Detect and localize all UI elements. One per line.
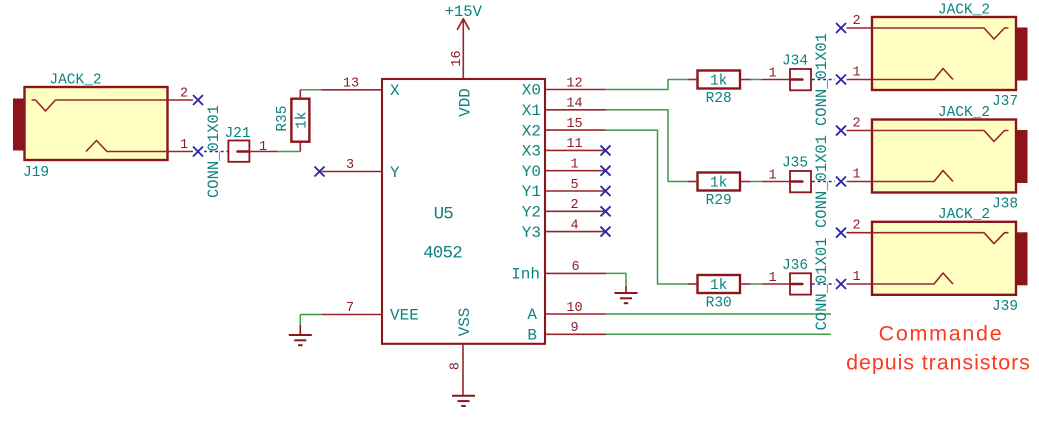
pin name Y [390, 164, 400, 182]
svg-text:B: B [527, 326, 537, 344]
pin 8 (VSS) of U5 [462, 344, 464, 396]
svg-text:Y0: Y0 [522, 163, 541, 181]
svg-text:Commande: Commande [879, 322, 1004, 346]
svg-text:+15V: +15V [445, 3, 483, 21]
pin 1 of J19 (wire stub) [168, 151, 194, 153]
pin 1 of J39 [847, 283, 872, 285]
pin 10 (A) of U5 [545, 313, 606, 315]
pin 16 (VDD) of U5 [462, 38, 464, 79]
svg-text:7: 7 [346, 301, 354, 316]
no-connect X on J38 pin 1 [836, 177, 846, 187]
pin 2 of J19 (wire stub) [168, 99, 194, 101]
reference R30 [706, 295, 732, 311]
connector J39 (JACK_2 stereo jack) [872, 222, 1028, 295]
svg-text:3: 3 [346, 158, 354, 173]
svg-text:5: 5 [570, 178, 578, 193]
svg-text:2: 2 [852, 14, 860, 29]
svg-text:J34: J34 [782, 54, 808, 70]
pin number 1 of J39 [852, 270, 860, 285]
wire VEE to ground (green) [300, 315, 321, 326]
svg-text:A: A [527, 306, 537, 324]
reference J19 [23, 165, 49, 181]
pin 2 (Y2) of U5 [545, 210, 606, 212]
pin name X3 [522, 143, 541, 161]
reference R35 [275, 106, 291, 132]
pin name VSS [456, 308, 474, 337]
pin 9 (B) of U5 [545, 333, 606, 335]
pin number 11 [566, 137, 582, 152]
svg-text:J39: J39 [992, 299, 1018, 315]
pin number 2 of J38 [852, 117, 860, 132]
pin name Y3 [522, 224, 541, 242]
ground symbol at VSS [452, 396, 475, 406]
svg-text:R28: R28 [706, 91, 732, 107]
svg-text:2: 2 [180, 87, 188, 102]
reference J36 [782, 258, 808, 274]
value 1k of R30 [710, 278, 727, 294]
no-connect X on pin 4 [601, 227, 611, 237]
pin 2 of J37 [847, 27, 872, 29]
annotation text line 1 (Commande) [879, 322, 1004, 346]
pin 12 (X0) of U5 [545, 89, 606, 91]
power symbol +15V [457, 19, 469, 41]
wire X1 to R29 (green) [606, 110, 690, 182]
wire net A (green) [606, 313, 831, 315]
value 1k of R28 [710, 74, 727, 90]
svg-text:13: 13 [343, 77, 359, 92]
op-amp U5 body (4052 multiplexer) [382, 79, 545, 344]
svg-text:2: 2 [570, 198, 578, 213]
pin number 1 of J21 [259, 140, 267, 155]
pin number 1 of J38 [852, 168, 860, 183]
pin number 1 of J36 [768, 271, 776, 286]
wire Inh to ground (green) [606, 273, 626, 286]
wire X2 to R30 (green) [606, 130, 690, 284]
net label +15V [445, 3, 483, 21]
svg-text:1: 1 [768, 271, 776, 286]
ground symbol at Inh [615, 286, 638, 303]
pin 1 of J38 [847, 181, 872, 183]
svg-text:J35: J35 [782, 156, 808, 172]
svg-text:R29: R29 [706, 193, 732, 209]
svg-text:1: 1 [852, 168, 860, 183]
reference R28 [706, 91, 732, 107]
label JACK_2 for J39 [938, 207, 990, 223]
label CONN_01X01 for J34 [813, 33, 831, 126]
svg-text:1k: 1k [710, 176, 727, 192]
svg-text:Y2: Y2 [522, 204, 541, 222]
svg-text:JACK_2: JACK_2 [938, 207, 990, 223]
pin name Inh [511, 265, 540, 283]
no-connect X on pin 2 [601, 206, 611, 216]
svg-text:J21: J21 [224, 126, 250, 142]
pin number 5 [570, 178, 578, 193]
svg-text:X0: X0 [522, 82, 541, 100]
svg-text:R35: R35 [275, 106, 291, 132]
svg-text:1k: 1k [710, 74, 727, 90]
dashed no-connect link J35 [812, 181, 835, 183]
no-connect X on pin 3 [315, 167, 325, 177]
pin 1 of J34 [762, 79, 790, 81]
svg-text:1: 1 [852, 66, 860, 81]
svg-text:9: 9 [570, 321, 578, 336]
svg-text:1: 1 [180, 138, 188, 153]
pin number 1 of J37 [852, 66, 860, 81]
svg-text:CONN_01X01: CONN_01X01 [813, 33, 831, 126]
pin name B [527, 326, 537, 344]
pin 1 of J37 [847, 79, 872, 81]
connector J36 (CONN_01X01) [790, 273, 811, 294]
pin number 15 [566, 117, 582, 132]
pin number 2 of J39 [852, 219, 860, 234]
svg-text:6: 6 [571, 260, 579, 275]
dashed no-connect link J34 [812, 79, 835, 81]
label CONN_01X01 for J36 [813, 237, 831, 330]
no-connect X on J38 pin 2 [836, 126, 846, 136]
svg-text:JACK_2: JACK_2 [938, 105, 990, 121]
pin 4 (Y3) of U5 [545, 231, 606, 233]
svg-text:J38: J38 [992, 197, 1018, 213]
wire J21 to R35 (green) [278, 151, 301, 153]
svg-text:Y1: Y1 [522, 183, 541, 201]
svg-text:2: 2 [852, 219, 860, 234]
svg-text:X: X [390, 82, 400, 100]
label JACK_2 for J38 [938, 105, 990, 121]
pin number 1 of J19 [180, 138, 188, 153]
connector J34 (CONN_01X01) [790, 69, 811, 90]
value 4052 of U5 [423, 244, 462, 264]
reference J39 [992, 299, 1018, 315]
value 1k of R35 [294, 111, 310, 128]
wire R30 to J36 (green) [751, 283, 763, 285]
pin number 8 [449, 362, 464, 370]
resistor R28 (1k) [689, 71, 751, 89]
svg-text:X1: X1 [522, 102, 541, 120]
svg-text:8: 8 [449, 362, 464, 370]
pin number 14 [566, 97, 582, 112]
reference J38 [992, 197, 1018, 213]
pin 1 of J21 [250, 151, 278, 153]
svg-text:1: 1 [768, 168, 776, 183]
svg-text:J37: J37 [992, 94, 1018, 110]
svg-text:JACK_2: JACK_2 [938, 2, 990, 18]
svg-text:14: 14 [566, 97, 582, 112]
reference U5 [434, 205, 454, 225]
svg-text:VEE: VEE [390, 307, 419, 325]
connector J21 (CONN_01X01) [228, 141, 249, 162]
svg-text:4052: 4052 [423, 244, 462, 264]
svg-text:1k: 1k [294, 111, 310, 128]
no-connect X on pin 5 [601, 186, 611, 196]
annotation text line 2 (depuis transistors) [846, 351, 1031, 375]
dashed no-connect link J19 to J21 [204, 151, 228, 153]
pin name X [390, 82, 400, 100]
pin number 2 [570, 198, 578, 213]
pin name A [527, 306, 537, 324]
pin 1 of J35 [762, 181, 790, 183]
svg-text:12: 12 [566, 76, 582, 91]
svg-text:X2: X2 [522, 122, 541, 140]
svg-text:CONN_01X01: CONN_01X01 [205, 105, 223, 198]
svg-text:depuis transistors: depuis transistors [846, 351, 1031, 375]
pin 1 of J36 [762, 283, 790, 285]
reference R29 [706, 193, 732, 209]
connector J38 (JACK_2 stereo jack) [872, 120, 1028, 193]
pin number 2 of J37 [852, 14, 860, 29]
reference J21 [224, 126, 250, 142]
wire R35 to U5 pin 13 (green) [300, 89, 321, 91]
svg-text:15: 15 [566, 117, 582, 132]
pin name Y0 [522, 163, 541, 181]
pin number 16 [450, 50, 465, 66]
svg-text:2: 2 [852, 117, 860, 132]
no-connect X on J19 pin 1 [193, 147, 203, 157]
pin 6 (Inh) of U5 [545, 272, 606, 274]
svg-text:1: 1 [570, 158, 578, 173]
svg-text:Inh: Inh [511, 265, 540, 283]
connector J19 (JACK_2 stereo jack) [13, 87, 168, 160]
label CONN_01X01 for J35 [813, 135, 831, 228]
no-connect X on J39 pin 2 [836, 228, 846, 238]
pin name VEE [390, 307, 419, 325]
pin number 7 [346, 301, 354, 316]
wire R29 to J35 (green) [751, 181, 763, 183]
pin number 13 [343, 77, 359, 92]
svg-text:CONN_01X01: CONN_01X01 [813, 237, 831, 330]
pin number 6 [571, 260, 579, 275]
resistor R29 (1k) [689, 173, 751, 191]
no-connect X on J19 pin 2 [193, 95, 203, 105]
pin number 10 [566, 301, 582, 316]
svg-text:Y3: Y3 [522, 224, 541, 242]
resistor R30 (1k) [689, 275, 751, 293]
svg-text:X3: X3 [522, 143, 541, 161]
reference J34 [782, 54, 808, 70]
connector J37 (JACK_2 stereo jack) [872, 17, 1028, 90]
wire net B (green) [606, 333, 831, 335]
svg-text:1: 1 [259, 140, 267, 155]
svg-text:1k: 1k [710, 278, 727, 294]
svg-text:10: 10 [566, 301, 582, 316]
label JACK_2 for J37 [938, 2, 990, 18]
wire R28 to J34 (green) [751, 79, 763, 81]
pin number 9 [570, 321, 578, 336]
svg-text:J36: J36 [782, 258, 808, 274]
no-connect X on J39 pin 1 [836, 279, 846, 289]
resistor R35 (vertical 1k) [291, 90, 309, 152]
svg-text:J19: J19 [23, 165, 49, 181]
pin number 4 [570, 218, 578, 233]
pin name X0 [522, 82, 541, 100]
reference J35 [782, 156, 808, 172]
wire X0 to R28 (green) [606, 80, 689, 90]
pin number 1 of J35 [768, 168, 776, 183]
pin 2 of J39 [847, 232, 872, 234]
pin 3 (Y input) of U5 [322, 171, 383, 173]
no-connect X on pin 11 [601, 145, 611, 155]
svg-text:4: 4 [570, 218, 578, 233]
value 1k of R29 [710, 176, 727, 192]
svg-text:1: 1 [852, 270, 860, 285]
svg-text:VDD: VDD [456, 88, 474, 117]
pin 13 (X input) of U5 [322, 89, 383, 91]
pin name X2 [522, 122, 541, 140]
svg-text:CONN_01X01: CONN_01X01 [813, 135, 831, 228]
label JACK_2 for J19 [49, 73, 101, 89]
pin name VDD [456, 88, 474, 117]
no-connect X on J37 pin 2 [836, 23, 846, 33]
pin 5 (Y1) of U5 [545, 190, 606, 192]
svg-text:16: 16 [450, 50, 465, 66]
svg-text:R30: R30 [706, 295, 732, 311]
pin number 1 [570, 158, 578, 173]
svg-text:JACK_2: JACK_2 [49, 73, 101, 89]
pin name Y2 [522, 204, 541, 222]
svg-text:11: 11 [566, 137, 582, 152]
svg-text:VSS: VSS [456, 308, 474, 337]
pin 1 (Y0) of U5 [545, 170, 606, 172]
reference J37 [992, 94, 1018, 110]
pin number 12 [566, 76, 582, 91]
ground symbol at VEE [289, 325, 312, 345]
pin number 1 of J34 [768, 66, 776, 81]
no-connect X on pin 1 [601, 166, 611, 176]
svg-text:U5: U5 [434, 205, 454, 225]
pin name X1 [522, 102, 541, 120]
connector J35 (CONN_01X01) [790, 171, 811, 192]
pin 15 (X2) of U5 [545, 129, 606, 131]
svg-text:Y: Y [390, 164, 400, 182]
no-connect X on J37 pin 1 [836, 75, 846, 85]
svg-text:1: 1 [768, 66, 776, 81]
pin 2 of J38 [847, 130, 872, 132]
pin number 3 [346, 158, 354, 173]
pin 11 (X3) of U5 [545, 149, 606, 151]
pin name Y1 [522, 183, 541, 201]
label CONN_01X01 for J21 [205, 105, 223, 198]
dashed no-connect link J36 [812, 283, 835, 285]
pin 7 (VEE) of U5 [322, 314, 383, 316]
pin number 2 of J19 [180, 87, 188, 102]
pin 14 (X1) of U5 [545, 109, 606, 111]
